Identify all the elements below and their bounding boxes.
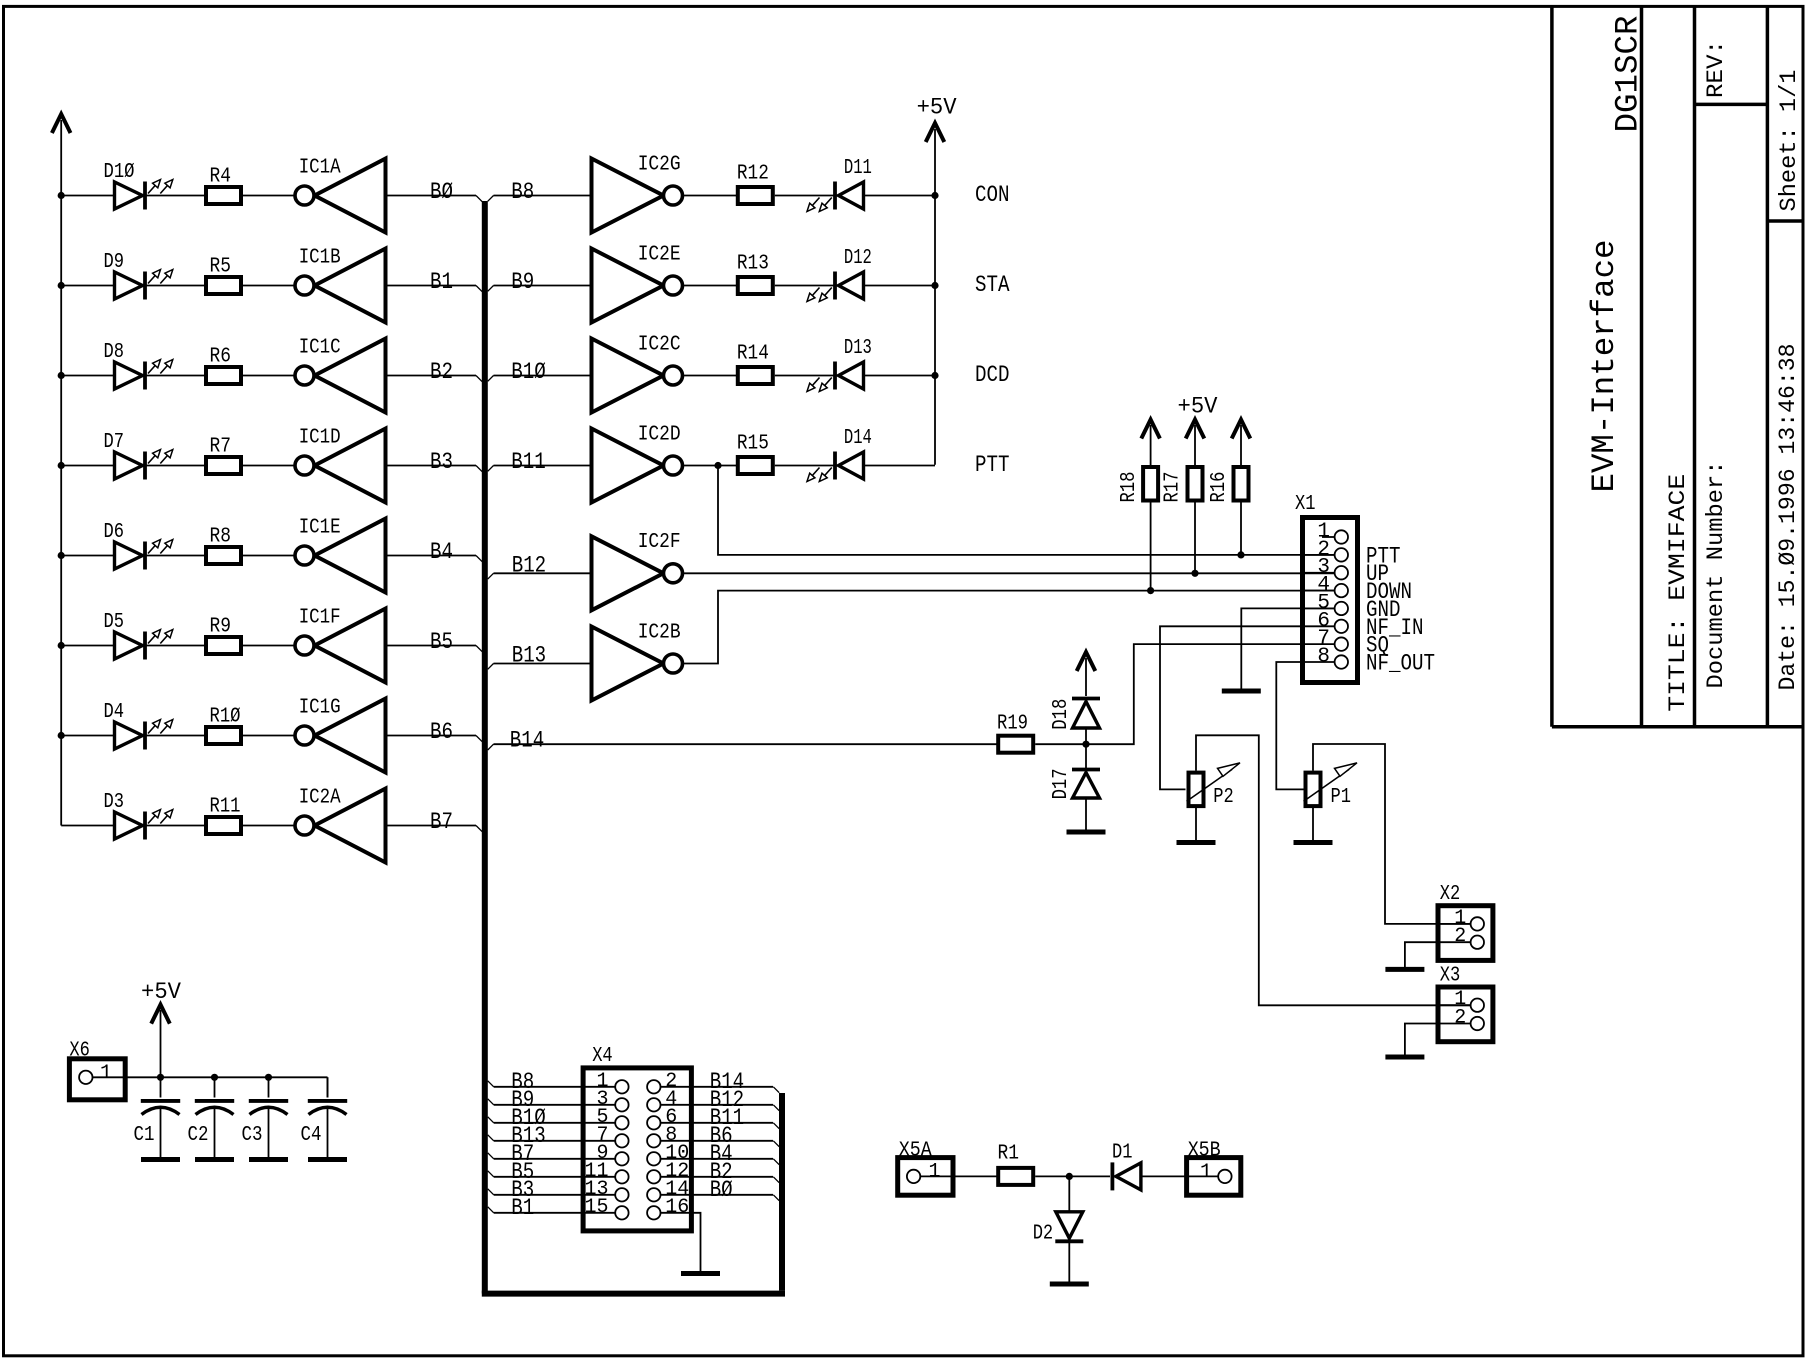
pin 3 X1 <box>1303 566 1349 579</box>
wire IC2F output to X1 UP <box>683 572 1336 574</box>
junction R19 D17 D18 node <box>1082 741 1089 748</box>
inverter IC1C <box>295 339 386 413</box>
ground X4 <box>681 1271 720 1276</box>
pin 2 X2 <box>1438 936 1484 949</box>
resistor R8 <box>206 547 241 564</box>
wire R14 to D13 <box>775 375 835 377</box>
LED D9 <box>115 270 173 300</box>
resistor R17 <box>1188 467 1203 501</box>
wire X1 NF_IN to P2 wiper <box>1160 626 1303 789</box>
svg-text:Date: 15.Ø9.1996 13:46:38: Date: 15.Ø9.1996 13:46:38 <box>1775 344 1802 691</box>
svg-text:B7: B7 <box>430 809 453 836</box>
svg-text:D8: D8 <box>104 341 125 364</box>
wire C1 bottom <box>160 1109 162 1158</box>
wire rail to D5 <box>61 645 114 647</box>
svg-text:R18: R18 <box>1118 472 1141 503</box>
wire D13 to +5V rail <box>864 375 936 377</box>
svg-text:DCD: DCD <box>975 362 1010 389</box>
wire X1 SQ to R19 node <box>1086 644 1303 744</box>
wire B1 to X4 pin 15 <box>494 1212 616 1214</box>
junction +5V rail STA <box>931 282 938 289</box>
inverter IC2B <box>592 627 683 701</box>
bus entry X4 B6 <box>773 1141 779 1147</box>
wire P1 bottom <box>1312 806 1314 840</box>
svg-text:R6: R6 <box>210 346 232 369</box>
svg-text:R8: R8 <box>210 526 232 549</box>
svg-text:IC1E: IC1E <box>299 516 341 539</box>
wire node to D2 <box>1068 1176 1070 1211</box>
bus entry B2 <box>476 376 482 382</box>
wire X2 pin2 to ground <box>1405 942 1438 967</box>
wire X4 pin 2 to B14 <box>660 1086 773 1088</box>
junction +5V rail CON <box>931 192 938 199</box>
bus entry B7 <box>476 826 482 832</box>
pin 3 X4 <box>615 1098 628 1111</box>
wire B8 to X4 pin 1 <box>494 1086 616 1088</box>
pin 14 X4 <box>647 1188 660 1201</box>
wire B9 to X4 pin 3 <box>494 1104 616 1106</box>
wire R5 to IC1B <box>243 285 295 287</box>
bus right vertical <box>779 1093 785 1291</box>
wire B14 to R19 <box>494 743 999 745</box>
pin 5 X1 <box>1303 602 1349 615</box>
svg-text:R5: R5 <box>210 256 232 279</box>
junction C2 <box>211 1074 218 1081</box>
resistor R12 <box>738 187 773 204</box>
bus vertical main <box>482 201 488 1294</box>
svg-text:R1Ø: R1Ø <box>210 706 241 729</box>
svg-text:NF_OUT: NF_OUT <box>1366 651 1435 678</box>
inverter IC2E <box>592 249 683 323</box>
svg-text:+5V: +5V <box>1178 394 1218 421</box>
junction rail B5 <box>58 642 65 649</box>
svg-text:Document Number:: Document Number: <box>1703 461 1730 689</box>
resistor R6 <box>206 367 241 384</box>
pin 1 X6 <box>79 1071 125 1084</box>
wire X4 pin 14 to BØ <box>660 1194 773 1196</box>
svg-text:D18: D18 <box>1050 699 1073 730</box>
inverter IC2D <box>592 429 683 503</box>
wire IC1C output net B2 <box>386 375 477 377</box>
svg-text:IC1C: IC1C <box>299 336 341 359</box>
svg-text:DG1SCR: DG1SCR <box>1609 16 1646 133</box>
svg-text:R14: R14 <box>737 342 769 365</box>
wire D3 to R11 <box>147 825 207 827</box>
svg-text:R15: R15 <box>737 432 769 455</box>
wire B7 to X4 pin 9 <box>494 1158 616 1160</box>
wire IC1E output net B4 <box>386 555 477 557</box>
inverter IC2C <box>592 339 683 413</box>
bus entry X4 B2 <box>773 1177 779 1183</box>
pin 1 X5A <box>907 1170 953 1183</box>
wire C4 bottom <box>327 1109 329 1158</box>
wire X1 NF_OUT to P1 wiper <box>1276 662 1303 789</box>
bus entry B5 <box>476 646 482 652</box>
svg-text:D9: D9 <box>104 251 125 274</box>
wire B11 to IC2D <box>494 465 592 467</box>
wire X4 pin 12 to B2 <box>660 1176 773 1178</box>
wire C4 top <box>327 1077 329 1097</box>
ground X1 GND <box>1222 689 1261 694</box>
svg-text:IC1G: IC1G <box>299 696 341 719</box>
svg-text:BØ: BØ <box>430 179 453 206</box>
wire B1Ø to X4 pin 5 <box>494 1122 616 1124</box>
svg-text:B13: B13 <box>512 643 547 670</box>
svg-text:X4: X4 <box>592 1045 613 1068</box>
wire IC2C to R14 <box>683 375 738 377</box>
svg-text:B1: B1 <box>430 269 453 296</box>
svg-text:IC2C: IC2C <box>638 333 681 356</box>
svg-text:D2: D2 <box>1033 1222 1054 1245</box>
wire R18 to DOWN line <box>1150 503 1152 591</box>
wire R12 to D11 <box>775 195 835 197</box>
ground P1 <box>1294 840 1333 845</box>
junction IC2D output node <box>714 462 721 469</box>
svg-text:B6: B6 <box>430 719 453 746</box>
wire B3 to X4 pin 13 <box>494 1194 616 1196</box>
svg-text:2: 2 <box>1454 925 1466 948</box>
pin 6 X4 <box>647 1116 660 1129</box>
svg-text:IC2D: IC2D <box>638 423 681 446</box>
wire P2 top to X3 pin1 <box>1196 735 1471 1005</box>
pin 2 X3 <box>1438 1017 1484 1030</box>
bus entry X4 B7 <box>488 1153 494 1159</box>
svg-text:C4: C4 <box>301 1124 322 1147</box>
resistor R1 <box>998 1168 1033 1185</box>
svg-text:IC2F: IC2F <box>638 531 681 554</box>
LED D6 <box>115 540 173 570</box>
LED D13 <box>807 362 864 392</box>
svg-text:16: 16 <box>665 1196 689 1219</box>
svg-text:B14: B14 <box>510 728 545 755</box>
junction rail B2 <box>58 372 65 379</box>
svg-text:B11: B11 <box>511 449 546 476</box>
svg-text:Sheet: 1/1: Sheet: 1/1 <box>1776 70 1803 212</box>
ground X2 <box>1385 967 1424 972</box>
resistor R7 <box>206 457 241 474</box>
junction rail B3 <box>58 462 65 469</box>
bus entry X4 B11 <box>773 1123 779 1129</box>
junction rail B4 <box>58 552 65 559</box>
power arrow above R18 <box>1141 420 1160 439</box>
power arrow +5V left rail <box>52 114 71 133</box>
wire D2 to ground <box>1068 1241 1070 1282</box>
wire D4 to R1Ø <box>147 735 207 737</box>
wire IC1G output net B6 <box>386 735 477 737</box>
svg-text:D11: D11 <box>844 157 872 180</box>
svg-text:B1Ø: B1Ø <box>511 359 546 386</box>
bus entry B1Ø <box>488 376 494 382</box>
resistor R16 <box>1234 467 1249 501</box>
bus entry X4 B1Ø <box>488 1117 494 1123</box>
junction R16 PTT <box>1237 551 1244 558</box>
pin 11 X4 <box>615 1170 628 1183</box>
bus entry B11 <box>488 466 494 472</box>
junction rail B6 <box>58 732 65 739</box>
svg-text:B3: B3 <box>430 449 453 476</box>
pin 8 X1 <box>1303 655 1349 668</box>
LED D3 <box>115 810 173 840</box>
LED D14 <box>807 452 864 482</box>
capacitor C3 <box>249 1101 288 1115</box>
wire IC2E to R13 <box>683 285 738 287</box>
bus entry X4 B5 <box>488 1171 494 1177</box>
LED D12 <box>807 272 864 302</box>
wire D9 to R5 <box>147 285 207 287</box>
wire R9 to IC1F <box>243 645 295 647</box>
wire IC1D output net B3 <box>386 465 477 467</box>
connector X5A <box>898 1158 953 1196</box>
pin 10 X4 <box>647 1152 660 1165</box>
svg-text:+5V: +5V <box>917 95 957 122</box>
pin 2 X1 <box>1303 548 1349 561</box>
inverter IC2F <box>592 536 683 610</box>
wire rail to D1Ø <box>61 195 114 197</box>
bus entry X4 B12 <box>773 1105 779 1111</box>
inverter IC1D <box>295 429 386 503</box>
LED D8 <box>115 360 173 390</box>
svg-text:D6: D6 <box>104 521 125 544</box>
ground X3 <box>1385 1055 1424 1060</box>
wire rail to D9 <box>61 285 114 287</box>
bus entry X4 BØ <box>773 1195 779 1201</box>
power arrow above R16 <box>1232 420 1251 439</box>
svg-text:P1: P1 <box>1331 786 1352 809</box>
wire R4 to IC1A <box>243 195 295 197</box>
resistor R1Ø <box>206 727 241 744</box>
wire D18 to node <box>1085 728 1087 744</box>
svg-text:X1: X1 <box>1295 493 1316 516</box>
svg-text:R13: R13 <box>737 252 769 275</box>
bus entry X4 B1 <box>488 1207 494 1213</box>
wire rail to D4 <box>61 735 114 737</box>
wire X4 pin 4 to B12 <box>660 1104 773 1106</box>
svg-text:R7: R7 <box>210 436 232 459</box>
svg-text:1: 1 <box>100 1062 112 1085</box>
bus entry B4 <box>476 556 482 562</box>
svg-text:R9: R9 <box>210 616 232 639</box>
wire +5V X6 <box>160 1010 162 1077</box>
svg-text:R19: R19 <box>997 713 1028 736</box>
capacitor C1 <box>141 1101 180 1115</box>
connector X1 <box>1303 518 1358 683</box>
junction rail B1 <box>58 282 65 289</box>
pin 15 X4 <box>615 1206 628 1219</box>
ground C4 <box>308 1157 347 1162</box>
wire rail to D3 <box>61 825 114 827</box>
wire X6 to capacitors <box>125 1076 327 1078</box>
inverter IC1F <box>295 609 386 683</box>
wire R17 top <box>1194 425 1196 465</box>
svg-text:D1: D1 <box>1112 1142 1133 1165</box>
ground P2 <box>1177 840 1216 845</box>
svg-text:15: 15 <box>584 1196 608 1219</box>
resistor R13 <box>738 277 773 294</box>
junction C3 <box>265 1074 272 1081</box>
bus entry B14 <box>488 744 494 750</box>
wire R7 to IC1D <box>243 465 295 467</box>
svg-text:BØ: BØ <box>710 1177 733 1204</box>
wire IC1B output net B1 <box>386 285 477 287</box>
wire R8 to IC1E <box>243 555 295 557</box>
wire IC2B output to DOWN <box>683 591 1336 664</box>
svg-text:D4: D4 <box>104 701 125 724</box>
svg-text:IC2G: IC2G <box>638 153 681 176</box>
svg-text:B8: B8 <box>511 179 534 206</box>
power arrow +5V X6 <box>151 1005 170 1024</box>
svg-text:IC1B: IC1B <box>299 246 341 269</box>
wire IC1A output net BØ <box>386 195 477 197</box>
bus entry X4 B9 <box>488 1099 494 1105</box>
junction rail BØ <box>58 192 65 199</box>
power arrow +5V mid <box>926 123 945 142</box>
resistor R14 <box>738 367 773 384</box>
junction D2 node <box>1066 1173 1073 1180</box>
wire +5V mid rail <box>934 129 936 465</box>
bus entry B1 <box>476 286 482 292</box>
wire R11 to IC2A <box>243 825 295 827</box>
svg-text:X2: X2 <box>1440 883 1461 906</box>
pin 1 X1 <box>1322 530 1348 543</box>
svg-text:IC2B: IC2B <box>638 621 681 644</box>
wire node to D17 <box>1085 744 1087 768</box>
svg-text:B9: B9 <box>511 269 534 296</box>
wire D8 to R6 <box>147 375 207 377</box>
svg-text:2: 2 <box>1454 1007 1466 1030</box>
wire IC2D branch to X1 PTT <box>718 465 1335 555</box>
svg-text:PTT: PTT <box>975 452 1010 479</box>
LED D11 <box>807 182 864 212</box>
wire C3 bottom <box>268 1109 270 1158</box>
wire X4 pin 16 to ground <box>660 1213 700 1271</box>
svg-text:B5: B5 <box>430 629 453 656</box>
svg-text:C1: C1 <box>134 1124 155 1147</box>
svg-text:IC2E: IC2E <box>638 243 681 266</box>
resistor R19 <box>998 736 1033 753</box>
inverter IC1G <box>295 699 386 773</box>
junction R18 DOWN <box>1147 587 1154 594</box>
wire IC2A output net B7 <box>386 825 477 827</box>
diode D1 <box>1112 1162 1141 1190</box>
bus entry X4 B4 <box>773 1159 779 1165</box>
resistor R11 <box>206 817 241 834</box>
svg-text:R4: R4 <box>210 166 232 189</box>
wire X5A to R1 <box>953 1175 998 1177</box>
wire left +5V rail <box>60 120 62 826</box>
inverter IC1B <box>295 249 386 323</box>
bus entry B6 <box>476 736 482 742</box>
bus entry B12 <box>488 573 494 579</box>
wire X1 GND <box>1241 608 1302 688</box>
wire IC2G to R12 <box>683 195 738 197</box>
wire rail to D7 <box>61 465 114 467</box>
connector X3 <box>1438 987 1493 1042</box>
svg-text:D1Ø: D1Ø <box>104 161 135 184</box>
svg-text:TITLE: EVMIFACE: TITLE: EVMIFACE <box>1665 474 1692 712</box>
svg-text:IC1D: IC1D <box>299 426 341 449</box>
capacitor C2 <box>195 1101 234 1115</box>
wire R17 to UP line <box>1194 503 1196 573</box>
wire R13 to D12 <box>775 285 835 287</box>
diode D18 <box>1072 699 1100 729</box>
svg-text:IC1A: IC1A <box>299 156 341 179</box>
potentiometer P1 <box>1304 763 1358 806</box>
svg-text:B12: B12 <box>512 553 547 580</box>
bus entry X4 B3 <box>488 1189 494 1195</box>
connector X5B <box>1187 1158 1241 1196</box>
svg-text:R12: R12 <box>737 162 769 185</box>
diode D17 <box>1072 770 1100 799</box>
svg-text:D17: D17 <box>1050 768 1073 799</box>
wire R16 to PTT line <box>1240 503 1242 555</box>
bus entry B8 <box>488 196 494 202</box>
LED D5 <box>115 630 173 660</box>
ground C3 <box>249 1157 288 1162</box>
svg-text:D7: D7 <box>104 431 125 454</box>
resistor R4 <box>206 187 241 204</box>
bus entry X4 B14 <box>773 1087 779 1093</box>
wire C1 top <box>160 1077 162 1097</box>
power arrow +5V above D18 <box>1077 652 1096 671</box>
wire corner C4 <box>327 1077 329 1097</box>
wire D7 to R7 <box>147 465 207 467</box>
svg-text:B4: B4 <box>430 539 453 566</box>
capacitor C4 <box>308 1101 347 1115</box>
bus bottom horizontal <box>482 1291 785 1297</box>
wire P1 top to X2 pin1 <box>1313 744 1471 924</box>
potentiometer P2 <box>1187 763 1241 806</box>
junction R17 UP <box>1191 570 1198 577</box>
svg-text:D12: D12 <box>844 247 872 270</box>
inverter IC2A <box>295 789 386 863</box>
wire R6 to IC1C <box>243 375 295 377</box>
ground D17 <box>1067 830 1106 835</box>
svg-text:B1: B1 <box>511 1195 534 1222</box>
wire rail to D6 <box>61 555 114 557</box>
wire R15 to D14 <box>775 465 835 467</box>
svg-text:STA: STA <box>975 272 1010 299</box>
pin 7 X4 <box>615 1134 628 1147</box>
pin 1 X3 <box>1438 999 1484 1012</box>
svg-text:REV:: REV: <box>1703 40 1730 98</box>
resistor R18 <box>1143 467 1158 501</box>
svg-text:8: 8 <box>1317 646 1330 669</box>
svg-text:B2: B2 <box>430 359 453 386</box>
pin 12 X4 <box>647 1170 660 1183</box>
resistor R9 <box>206 637 241 654</box>
resistor R15 <box>738 457 773 474</box>
bus entry X4 B13 <box>488 1135 494 1141</box>
wire B13 to X4 pin 7 <box>494 1140 616 1142</box>
wire D1Ø to R4 <box>147 195 207 197</box>
wire R18 top <box>1150 425 1152 465</box>
pin 16 X4 <box>647 1206 660 1219</box>
wire X4 pin 10 to B4 <box>660 1158 773 1160</box>
wire D11 to +5V rail <box>864 195 936 197</box>
wire B12 to IC2F <box>494 572 592 574</box>
svg-text:D13: D13 <box>844 337 872 360</box>
pin 7 X1 <box>1303 637 1349 650</box>
wire X4 pin 8 to B6 <box>660 1140 773 1142</box>
svg-text:D5: D5 <box>104 611 125 634</box>
resistor R5 <box>206 277 241 294</box>
bus entry B13 <box>488 664 494 670</box>
wire D18 top <box>1085 658 1087 696</box>
wire D6 to R8 <box>147 555 207 557</box>
svg-text:C3: C3 <box>242 1124 263 1147</box>
pin 9 X4 <box>615 1152 628 1165</box>
ground C2 <box>195 1157 234 1162</box>
